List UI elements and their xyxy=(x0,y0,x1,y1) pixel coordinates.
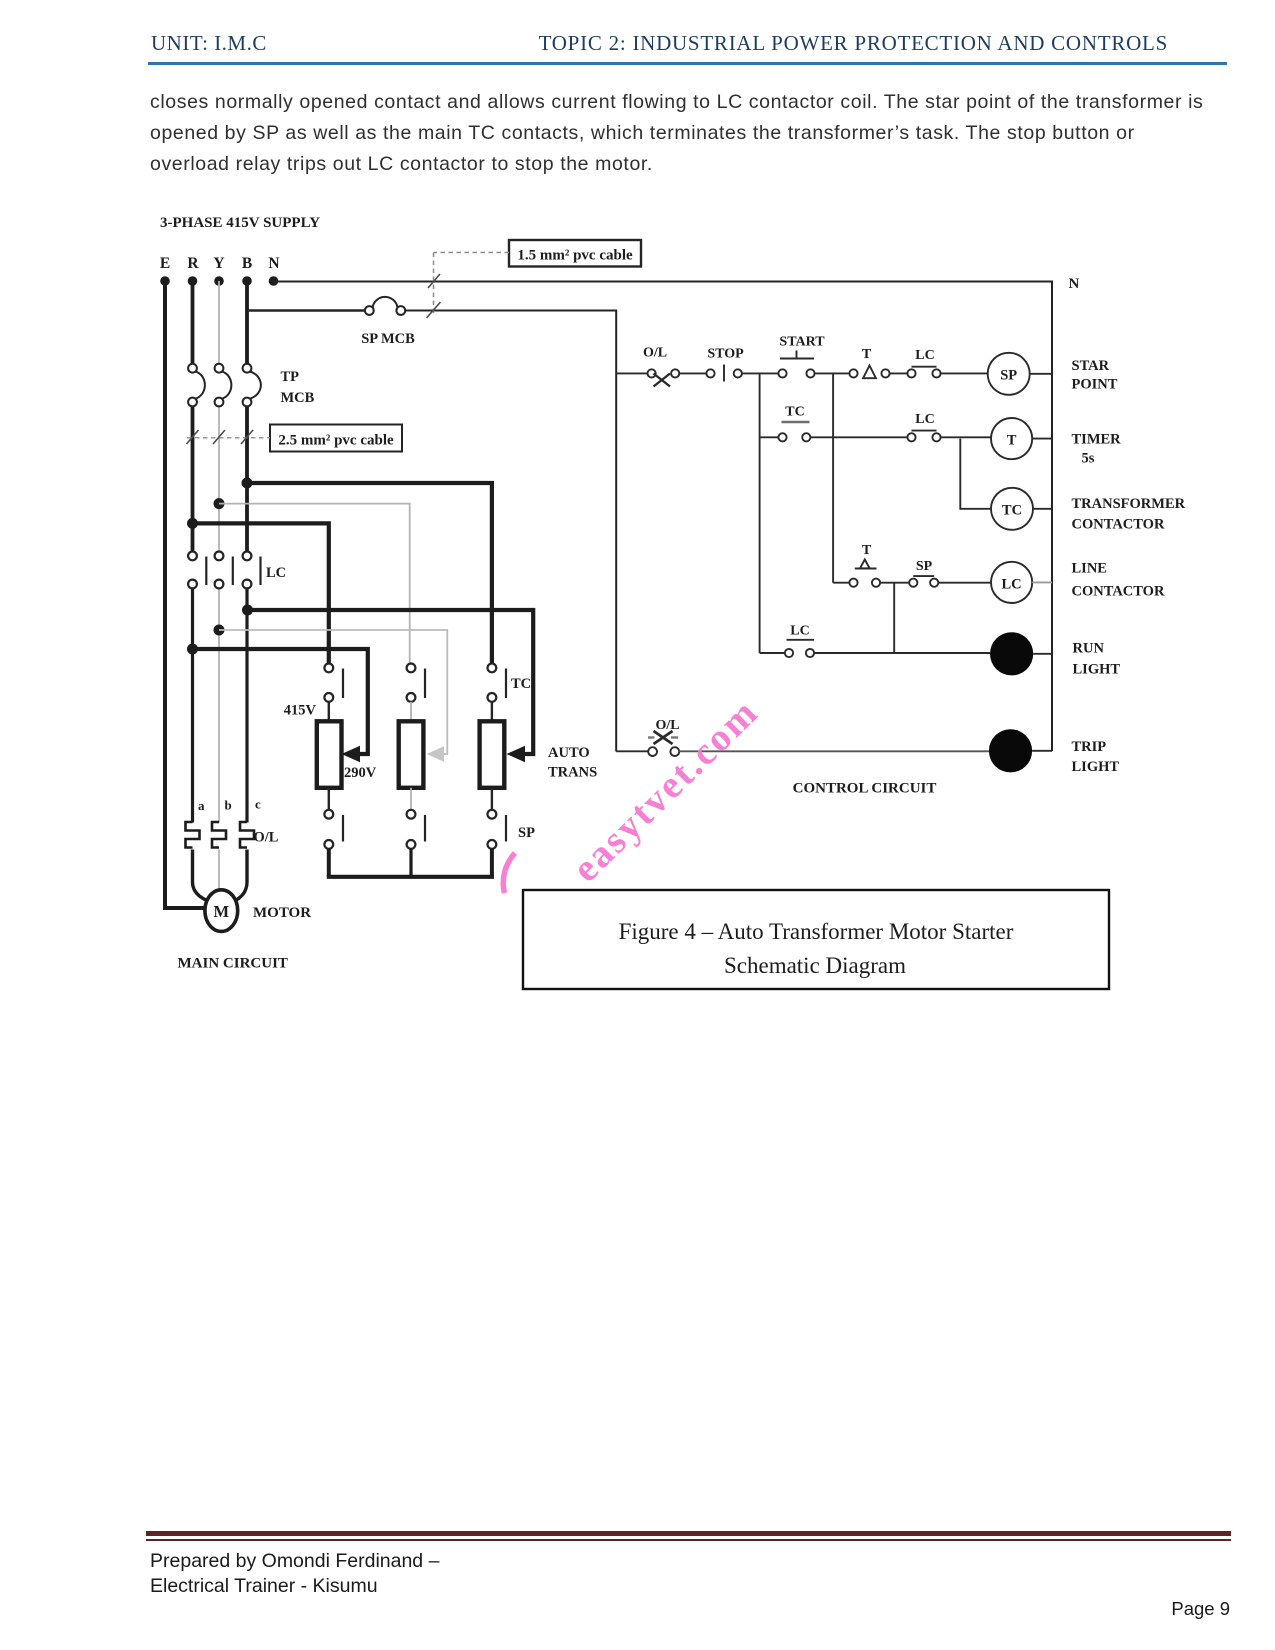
svg-text:LIGHT: LIGHT xyxy=(1073,662,1121,678)
svg-text:SP: SP xyxy=(916,559,933,574)
svg-text:N: N xyxy=(1069,276,1080,292)
svg-text:TRANS: TRANS xyxy=(548,765,597,781)
coil LC line contactor xyxy=(991,562,1032,603)
wire junction rail B (down from rung1) xyxy=(832,373,834,582)
coil SP star point xyxy=(988,353,1030,395)
wire rung4 left segment xyxy=(833,582,849,584)
label 415V xyxy=(284,703,317,719)
callout box 1.5 mm2 pvc cable xyxy=(509,240,641,267)
svg-text:R: R xyxy=(187,255,199,272)
wire rung1 LC to SP coil xyxy=(941,372,988,374)
contact TC branch 3 top xyxy=(488,664,507,702)
svg-text:T: T xyxy=(862,543,872,558)
wire Y phase (light) segments xyxy=(218,281,220,891)
wire rung1 START to T xyxy=(815,372,850,374)
svg-text:T: T xyxy=(862,347,872,362)
wire B phase to motor xyxy=(236,850,248,901)
svg-text:B: B xyxy=(242,255,252,272)
wire B to SP MCB xyxy=(249,309,365,311)
svg-text:T: T xyxy=(1007,433,1017,449)
svg-text:CONTACTOR: CONTACTOR xyxy=(1072,584,1165,600)
contact TC branch 1 top xyxy=(324,664,343,702)
svg-text:TC: TC xyxy=(511,676,531,692)
node B tap junction xyxy=(242,605,253,616)
wire R phase to transformer branch 1 top xyxy=(193,523,329,663)
label c xyxy=(255,797,261,812)
wire N line to control circuit right rail xyxy=(274,282,1053,752)
pushbutton START xyxy=(778,351,814,378)
svg-text:LC: LC xyxy=(266,565,286,581)
svg-text:STAR: STAR xyxy=(1072,358,1110,374)
coil T timer xyxy=(991,418,1032,459)
node R label xyxy=(187,255,199,272)
watermark easytvet.com xyxy=(564,690,767,890)
contactor LC pole Y xyxy=(215,552,233,589)
node Y label xyxy=(213,255,224,272)
node Y feed junction xyxy=(214,498,225,509)
run light lamp xyxy=(990,632,1033,675)
svg-text:3-PHASE 415V SUPPLY: 3-PHASE 415V SUPPLY xyxy=(160,215,320,231)
contact LC (rung5) xyxy=(785,649,814,657)
wire rung2 TC to LC xyxy=(810,436,907,438)
label SP rung4 xyxy=(916,559,933,574)
transformer coil 1 xyxy=(317,721,342,788)
contact SP (rung4) xyxy=(909,576,938,587)
wire rung5 LC to run light xyxy=(814,652,990,654)
breaker SP MCB xyxy=(365,297,405,315)
svg-text:O/L: O/L xyxy=(254,830,279,846)
contact TC (rung2) xyxy=(778,433,810,441)
svg-text:SP: SP xyxy=(518,825,535,841)
svg-text:RUN: RUN xyxy=(1073,641,1105,657)
node R feed junction xyxy=(187,518,198,529)
label STAR POINT xyxy=(1072,358,1118,393)
wire Y phase to transformer branch 2 top (light) xyxy=(219,504,410,664)
node B label xyxy=(242,255,252,272)
wire trip light to right rail xyxy=(1032,750,1052,752)
svg-text:STOP: STOP xyxy=(707,347,744,362)
svg-text:1.5 mm² pvc cable: 1.5 mm² pvc cable xyxy=(517,248,633,264)
svg-text:CONTROL CIRCUIT: CONTROL CIRCUIT xyxy=(793,781,937,797)
label RUN LIGHT xyxy=(1073,641,1121,678)
wire coil 1 to bottom contact xyxy=(328,788,330,810)
figure caption box xyxy=(523,890,1109,989)
contact O/L trip (rung6) xyxy=(648,731,679,756)
wire B tap to 290V arrow of branch 3 xyxy=(248,610,534,754)
svg-text:TRIP: TRIP xyxy=(1072,739,1107,755)
svg-text:N: N xyxy=(268,255,279,272)
svg-text:O/L: O/L xyxy=(655,718,679,733)
wire branch 2 contact to coil (light) xyxy=(410,702,412,721)
leader dashes from 1.5mm box xyxy=(434,253,510,314)
transformer coil 3 xyxy=(480,721,505,788)
label T rung1 xyxy=(862,347,872,362)
overload heater c xyxy=(240,822,254,848)
label TC (main) xyxy=(511,676,531,692)
svg-text:Figure 4 – Auto Transformer Mo: Figure 4 – Auto Transformer Motor Starte… xyxy=(619,919,1014,944)
breaker TP MCB pole Y xyxy=(215,364,232,407)
svg-text:SP: SP xyxy=(1000,368,1017,384)
trip light lamp xyxy=(989,729,1032,772)
overload heater b xyxy=(212,822,226,848)
svg-text:LIGHT: LIGHT xyxy=(1072,759,1120,775)
label O/L rung1 xyxy=(643,346,667,361)
label N (control) xyxy=(1069,276,1080,292)
label STOP xyxy=(707,347,744,362)
label TC rung2 with bar xyxy=(782,405,810,423)
contact LC (rung2) xyxy=(907,431,940,442)
svg-text:LC: LC xyxy=(915,348,934,363)
label LC rung5 with bar xyxy=(787,624,815,640)
arrowhead 290V tap branch 3 xyxy=(507,746,526,762)
label: 3-PHASE 415V SUPPLY xyxy=(160,215,320,231)
wire R tap to 290V arrow of branch 1 xyxy=(193,649,368,754)
wire star point bus xyxy=(327,875,494,879)
label LINE CONTACTOR xyxy=(1072,561,1165,600)
wire Y tap to 290V arrow of branch 2 (light) xyxy=(219,630,447,754)
contact O/L trip (rung1) xyxy=(648,369,680,386)
wire R phase segments xyxy=(191,281,195,823)
svg-text:CONTACTOR: CONTACTOR xyxy=(1072,517,1165,533)
wire rung6 O/L to trip light xyxy=(679,750,989,752)
wire rung1 O/L to STOP xyxy=(679,372,706,374)
svg-text:SP MCB: SP MCB xyxy=(361,331,415,347)
svg-text:415V: 415V xyxy=(284,703,317,719)
svg-text:M: M xyxy=(214,902,230,921)
node R tap junction xyxy=(187,644,198,655)
breaker TP MCB pole B xyxy=(243,364,261,407)
contact branch 2 top (light wires) xyxy=(407,664,425,702)
svg-text:5s: 5s xyxy=(1082,451,1095,467)
contactor LC pole R xyxy=(188,552,206,589)
label TIMER 5s xyxy=(1072,432,1122,467)
label TRIP LIGHT xyxy=(1072,739,1120,775)
supply terminal dots E R Y B N xyxy=(160,276,278,286)
motor M xyxy=(205,890,238,932)
wire rung1 T to LC xyxy=(890,372,908,374)
label SP (main) xyxy=(518,825,535,841)
label AUTO TRANS xyxy=(548,745,597,781)
svg-text:AUTO: AUTO xyxy=(548,745,590,761)
svg-text:Schematic Diagram: Schematic Diagram xyxy=(724,953,906,978)
label TRANSFORMER CONTACTOR xyxy=(1072,496,1186,533)
label MOTOR xyxy=(253,905,311,921)
svg-text:POINT: POINT xyxy=(1072,377,1118,393)
label TP MCB xyxy=(281,369,315,406)
wire SP MCB to control circuit left rail xyxy=(405,311,616,752)
wire SP coil to right rail xyxy=(1030,373,1052,375)
wire rung1 left segment xyxy=(616,372,647,374)
node N label xyxy=(268,255,279,272)
wire T coil to right rail xyxy=(1032,438,1052,440)
node Y tap junction xyxy=(214,625,225,636)
svg-text:MOTOR: MOTOR xyxy=(253,905,311,921)
overload heater a xyxy=(186,822,200,848)
svg-text:TRANSFORMER: TRANSFORMER xyxy=(1072,496,1186,512)
label a xyxy=(198,798,205,813)
svg-text:MCB: MCB xyxy=(281,390,315,406)
wire branch to TC coil xyxy=(960,439,991,509)
coil TC transformer contactor xyxy=(991,488,1033,530)
pushbutton STOP xyxy=(706,365,742,382)
label 290V xyxy=(344,765,377,781)
label LC xyxy=(266,565,286,581)
svg-text:LINE: LINE xyxy=(1072,561,1107,577)
label START xyxy=(779,335,825,350)
svg-text:TP: TP xyxy=(281,369,300,385)
wire rung5 left segment xyxy=(760,652,785,654)
svg-text:c: c xyxy=(255,797,261,812)
wire B phase segments xyxy=(245,281,249,823)
svg-text:2.5 mm² pvc cable: 2.5 mm² pvc cable xyxy=(278,433,394,449)
wire R phase to motor xyxy=(193,850,208,901)
arrowhead 290V tap branch 1 xyxy=(342,746,361,762)
wire branch 3 contact to coil xyxy=(491,702,493,721)
label LC rung2 xyxy=(915,412,934,427)
label T rung4 xyxy=(862,543,872,558)
svg-text:MAIN CIRCUIT: MAIN CIRCUIT xyxy=(178,956,288,972)
node E label xyxy=(160,255,170,272)
svg-text:a: a xyxy=(198,798,205,813)
wire LC coil to right rail xyxy=(1032,581,1052,583)
contact SP branch 1 bottom xyxy=(324,810,343,849)
wire rung2 LC to T coil xyxy=(941,436,991,438)
arrowhead 290V tap branch 2 (light) xyxy=(427,746,445,762)
watermark fragment xyxy=(503,853,515,893)
leader dashes from 2.5mm box xyxy=(187,437,270,439)
label b xyxy=(225,798,232,813)
callout box 2.5 mm2 pvc cable xyxy=(270,425,402,452)
wire rung4 T to SP xyxy=(880,582,909,584)
contact T timed (rung4) xyxy=(849,560,880,587)
wire E phase down to motor xyxy=(165,281,206,908)
wire branch 1 to star bus xyxy=(327,849,331,877)
svg-text:LC: LC xyxy=(915,412,934,427)
label O/L (main) xyxy=(254,830,279,846)
transformer coil 2 xyxy=(399,721,424,788)
cable slash marks on R Y B wires xyxy=(187,430,254,444)
wire branch 2 to star bus xyxy=(409,849,412,877)
svg-text:O/L: O/L xyxy=(643,346,667,361)
svg-text:TC: TC xyxy=(785,405,804,420)
label SP MCB xyxy=(361,331,415,347)
contact SP branch 3 bottom xyxy=(488,810,507,849)
wire branch 3 to star bus xyxy=(490,849,494,877)
wire rung2 left segment xyxy=(760,436,779,438)
contact branch 2 bottom xyxy=(407,810,425,849)
contact T timed (rung1) xyxy=(849,366,889,379)
svg-text:LC: LC xyxy=(790,624,809,639)
wire junction rail A (down from rung1) xyxy=(759,373,761,653)
svg-text:TIMER: TIMER xyxy=(1072,432,1122,448)
breaker TP MCB pole R xyxy=(188,364,205,407)
node B feed junction xyxy=(242,478,253,489)
svg-text:START: START xyxy=(779,335,825,350)
wire coil 3 to bottom contact xyxy=(491,788,493,810)
wire run light to right rail xyxy=(1033,653,1052,655)
label LC rung1 xyxy=(915,348,934,363)
wire junction rail C (rung4 to rung5) xyxy=(893,583,895,653)
wire coil 2 to bottom contact (light) xyxy=(410,788,412,810)
svg-text:290V: 290V xyxy=(344,765,377,781)
wire rung4 SP to LC coil xyxy=(938,582,991,584)
contactor LC pole B xyxy=(243,552,261,589)
label MAIN CIRCUIT xyxy=(178,956,288,972)
label CONTROL CIRCUIT xyxy=(793,781,937,797)
svg-text:TC: TC xyxy=(1002,503,1022,519)
wire branch 1 contact to coil xyxy=(328,702,330,721)
wire TC coil to right rail xyxy=(1033,508,1052,510)
wire rung1 STOP to START xyxy=(742,372,779,374)
wire rung6 left segment xyxy=(616,750,648,752)
contact LC (rung1) xyxy=(907,367,940,378)
svg-text:b: b xyxy=(225,798,232,813)
cable slash marks on N and B wires xyxy=(427,274,441,318)
svg-text:Y: Y xyxy=(213,255,224,272)
svg-text:LC: LC xyxy=(1002,577,1022,593)
svg-text:E: E xyxy=(160,255,170,272)
label O/L rung6 xyxy=(655,718,679,733)
wire B phase to transformer branch 3 top xyxy=(247,483,492,663)
